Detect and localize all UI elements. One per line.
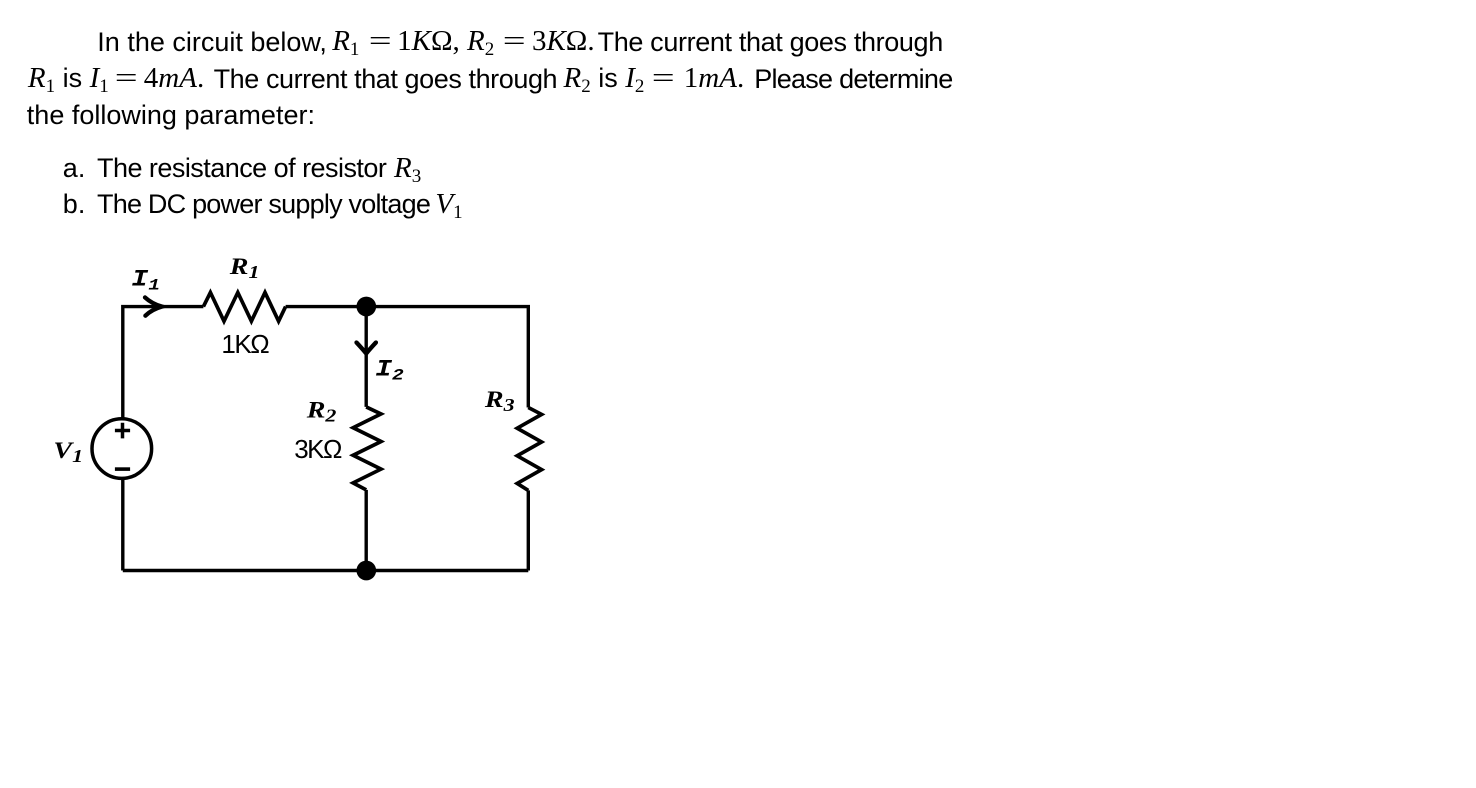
svg-text:I2: I2 (375, 356, 404, 384)
voltage source V1 (circle) (92, 419, 152, 479)
node A (top junction dot) (356, 297, 376, 317)
svg-text:1KΩ: 1KΩ (221, 329, 269, 359)
V1 plus sign (115, 423, 130, 439)
current arrow I2 (pointing down) (357, 343, 376, 354)
svg-text:R1: R1 (229, 253, 260, 282)
svg-text:I1: I1 (131, 267, 160, 295)
svg-text:R3: R3 (484, 386, 515, 415)
resistor R1 (horizontal zigzag) (203, 293, 285, 322)
resistor R2 (vertical zigzag) (353, 407, 381, 490)
wire: node A down to R2 (365, 307, 368, 407)
resistor R3 (vertical zigzag) (517, 408, 541, 491)
wire: R3 down to bottom-right corner (527, 490, 530, 570)
wire: V1 bottom to bottom rail (121, 479, 124, 571)
wire: R1 to node A (286, 305, 367, 308)
current arrow I1 (pointing right) (145, 297, 162, 315)
V1 minus sign (115, 467, 130, 471)
wire: node A to top-right corner down to R3 (366, 307, 528, 408)
wire: left rail from V1 top up and across to R1 (123, 307, 204, 418)
wire: bottom rail (123, 569, 529, 572)
wire: R2 to node B (365, 490, 368, 571)
node B (bottom junction dot) (356, 561, 376, 581)
svg-text:3KΩ: 3KΩ (294, 434, 342, 464)
svg-text:R2: R2 (306, 397, 337, 426)
svg-text:V1: V1 (53, 438, 83, 467)
